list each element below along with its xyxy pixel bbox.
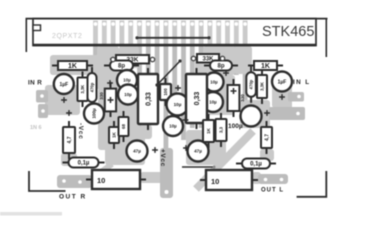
svg-text:0,33: 0,33 xyxy=(194,92,201,106)
svg-text:0,1µ: 0,1µ xyxy=(250,162,262,168)
capacitor 330 left xyxy=(99,82,116,117)
svg-text:68: 68 xyxy=(121,124,126,129)
capacitor 470p right xyxy=(246,66,256,103)
svg-text:100µ: 100µ xyxy=(92,108,97,119)
svg-text:IN R: IN R xyxy=(28,80,42,87)
board outline left edge xyxy=(25,18,27,52)
node: IN R pads xyxy=(36,90,48,118)
board corner bottom-right xyxy=(297,171,327,197)
svg-text:330: 330 xyxy=(240,94,245,102)
wire: pin hole dots xyxy=(94,22,247,26)
svg-text:10: 10 xyxy=(97,176,105,185)
svg-text:1µF: 1µF xyxy=(59,82,68,88)
board outline right edge xyxy=(325,18,327,57)
svg-text:-Vcc: -Vcc xyxy=(77,123,84,140)
resistor 1K input right xyxy=(248,61,283,70)
node: polarity mark near 100u left xyxy=(66,110,72,116)
svg-text:1N 6: 1N 6 xyxy=(30,125,42,131)
svg-text:4,7: 4,7 xyxy=(264,134,270,141)
node: IN L pads xyxy=(269,92,305,120)
resistor 3,3 right xyxy=(216,113,227,147)
node: polarity mark near 10u center xyxy=(175,85,181,91)
resistor 33K left xyxy=(110,55,155,64)
wire: trace behind 1uF right xyxy=(272,80,292,108)
svg-text:IN L: IN L xyxy=(293,79,311,86)
resistor 3,3K right xyxy=(257,69,267,104)
node: polarity mark near 1uF left xyxy=(61,97,67,103)
node: polarity mark near 10u right pair xyxy=(223,70,229,76)
svg-text:10µ: 10µ xyxy=(209,100,217,105)
U1 bottom edge emphasis xyxy=(33,44,316,46)
capacitor 470p left xyxy=(88,67,97,108)
scan smudge bottom-left xyxy=(0,212,62,216)
wire: trunk right pins b xyxy=(234,46,252,74)
wire: trace behind 10u right pair xyxy=(205,75,235,115)
wire: bar 10L to Vcc trunk xyxy=(140,172,163,183)
node: OUT L pads xyxy=(258,174,288,184)
resistor 1K input left xyxy=(52,61,93,70)
wire: lead to R10 right xyxy=(182,166,216,169)
svg-text:3,3K: 3,3K xyxy=(80,85,85,94)
wire: trace behind 47u right xyxy=(186,130,226,165)
node: polarity mark near 47u right xyxy=(183,145,189,151)
wire: bar 10R to OUT L xyxy=(252,172,261,184)
resistor 0,33 right xyxy=(186,68,207,129)
svg-text:10: 10 xyxy=(211,177,219,186)
svg-text:OUT R: OUT R xyxy=(59,194,87,201)
svg-text:1µF: 1µF xyxy=(278,79,287,85)
capacitor 10uF right a xyxy=(205,73,224,92)
wire: trace behind 1K left xyxy=(50,55,100,75)
wire: diagonal trace to OUT L xyxy=(196,131,253,189)
wire: diagonal jumper xyxy=(157,61,180,85)
capacitor 47uF right xyxy=(188,141,209,162)
capacitor 0,1uF left xyxy=(63,158,105,168)
svg-text:1K: 1K xyxy=(261,63,270,70)
svg-text:0,1µ: 0,1µ xyxy=(78,161,90,167)
svg-text:10µ: 10µ xyxy=(123,78,131,83)
wire: trace behind 33K right xyxy=(195,55,235,75)
svg-text:47µ: 47µ xyxy=(133,149,141,154)
wire: trunk behind 330 left xyxy=(98,88,140,150)
node: jumper end dots xyxy=(135,36,210,86)
resistor 1K right vertical xyxy=(203,114,214,148)
svg-text:4,7: 4,7 xyxy=(67,136,73,143)
svg-text:10µ: 10µ xyxy=(174,102,182,107)
capacitor 10uF center a xyxy=(167,94,189,116)
node: polarity mark near 10u left pair xyxy=(107,80,113,86)
wire: horizontal jumper xyxy=(137,37,209,39)
capacitor 1uF input right xyxy=(272,72,292,92)
resistor 68 left xyxy=(119,111,129,142)
capacitor 10uF left b xyxy=(118,85,138,105)
board corner bottom-left xyxy=(29,171,66,191)
node: via rings near 33K leads xyxy=(111,56,225,61)
resistor 100 xyxy=(160,78,171,106)
svg-text:1K: 1K xyxy=(112,131,117,137)
svg-text:0,33: 0,33 xyxy=(146,92,153,106)
svg-text:10µ: 10µ xyxy=(210,80,218,85)
capacitor 100uF right xyxy=(241,106,262,127)
node: polarity mark near 100u right xyxy=(264,110,270,116)
svg-text:330: 330 xyxy=(99,92,104,100)
capacitor 0,1uF right xyxy=(236,159,276,169)
svg-text:3,3: 3,3 xyxy=(219,126,224,133)
svg-text:470p: 470p xyxy=(90,82,95,92)
svg-text:STK465: STK465 xyxy=(262,24,314,40)
svg-text:8p: 8p xyxy=(217,64,224,70)
wire: pad below 4,7 right xyxy=(260,149,274,161)
capacitor 47uF left xyxy=(127,141,148,162)
wire: STK465 pin traces under IC xyxy=(93,21,247,161)
svg-text:10µ: 10µ xyxy=(169,124,177,129)
svg-text:1K: 1K xyxy=(206,127,211,133)
resistor 4,7 right xyxy=(261,121,272,154)
capacitor 330 right xyxy=(228,79,246,117)
capacitor 8p left xyxy=(104,61,139,71)
capacitor 10uF left a xyxy=(117,70,137,90)
svg-text:470p: 470p xyxy=(249,79,254,89)
resistor 33K right xyxy=(191,54,225,63)
wire: trace behind 100u right xyxy=(240,100,270,128)
node: polarity mark near 10u center b xyxy=(183,117,189,123)
capacitor 10uF right b xyxy=(203,92,223,112)
board outline top edge xyxy=(26,18,328,20)
svg-text:+Vcc: +Vcc xyxy=(159,149,166,167)
svg-text:3,3K: 3,3K xyxy=(260,82,265,91)
svg-text:2QPXT2: 2QPXT2 xyxy=(52,33,82,40)
svg-text:100µ: 100µ xyxy=(228,123,243,130)
node: OUT R pads xyxy=(57,175,92,188)
svg-text:10µ: 10µ xyxy=(124,92,132,97)
node: polarity mark near 1uF right xyxy=(279,94,285,100)
resistor 10 output left xyxy=(86,170,146,189)
node: polarity mark near 47u left xyxy=(152,147,158,153)
wire: +Vcc trunk xyxy=(160,148,173,198)
wire: trunk left pins xyxy=(97,46,119,90)
capacitor 10uF center b xyxy=(163,116,183,136)
wire: trace behind 47u left xyxy=(105,135,145,165)
op-amp U1 STK465 hybrid IC body xyxy=(33,19,316,46)
wire: trace above 47u left xyxy=(140,125,152,139)
capacitor 100uF left xyxy=(84,104,104,124)
resistor 10 output right xyxy=(200,170,258,190)
svg-text:1K: 1K xyxy=(68,63,77,70)
resistor 0,33 left xyxy=(138,68,158,130)
wire: trace below C 1uF left xyxy=(45,85,80,115)
wire: light wash over pins inside IC xyxy=(92,20,250,44)
resistor 3,3K left xyxy=(78,72,88,108)
resistor 1K left vertical xyxy=(109,121,119,149)
wire: pad below 4,7 left xyxy=(61,153,77,166)
wire: trunk left pins b xyxy=(119,46,139,68)
wire: trunk right pins xyxy=(203,46,235,72)
resistor 4,7 left xyxy=(63,121,75,159)
svg-text:OUT L: OUT L xyxy=(261,188,284,194)
capacitor 8p right xyxy=(204,61,238,71)
wire: trace behind 1uF right lower xyxy=(276,86,292,110)
svg-text:8p: 8p xyxy=(118,64,125,70)
capacitor 1uF input left xyxy=(54,74,74,94)
svg-text:100: 100 xyxy=(163,88,168,96)
svg-text:47µ: 47µ xyxy=(194,149,202,154)
wire: diagonal trace at OUT R xyxy=(90,164,112,180)
